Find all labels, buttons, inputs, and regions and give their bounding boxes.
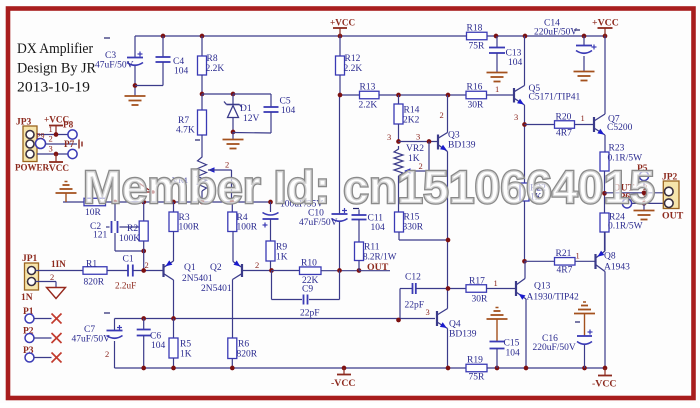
svg-text:-VCC: -VCC	[592, 379, 617, 390]
svg-text:4.7K: 4.7K	[176, 126, 195, 136]
svg-text:+VCC: +VCC	[330, 18, 355, 28]
svg-text:104: 104	[506, 349, 521, 359]
svg-text:R16: R16	[467, 83, 483, 93]
svg-text:C9: C9	[302, 285, 313, 295]
svg-text:R23: R23	[609, 144, 625, 154]
svg-text:100K: 100K	[119, 234, 140, 244]
svg-text:Q4: Q4	[449, 320, 461, 330]
svg-text:C1: C1	[123, 255, 134, 265]
svg-text:4R7: 4R7	[557, 266, 573, 276]
svg-text:2.2uF: 2.2uF	[115, 281, 136, 291]
svg-text:1: 1	[581, 113, 585, 123]
svg-text:BD139: BD139	[448, 141, 476, 151]
svg-text:P8: P8	[63, 120, 74, 130]
svg-text:Q2: Q2	[210, 263, 222, 273]
svg-text:Design By JR: Design By JR	[17, 60, 97, 77]
svg-text:104: 104	[174, 67, 189, 77]
svg-text:C5200: C5200	[607, 123, 633, 133]
svg-text:100R: 100R	[237, 223, 258, 233]
svg-text:220uF/50V: 220uF/50V	[534, 28, 577, 38]
svg-text:D1: D1	[240, 104, 252, 114]
svg-text:C3: C3	[105, 51, 116, 61]
svg-text:104: 104	[508, 58, 523, 68]
svg-text:2013-10-19: 2013-10-19	[17, 79, 90, 96]
svg-text:R15: R15	[404, 213, 420, 223]
svg-text:R13: R13	[360, 83, 376, 93]
svg-text:Member Id: cn1510664015: Member Id: cn1510664015	[83, 161, 655, 213]
svg-text:R4: R4	[237, 213, 248, 223]
svg-text:330R: 330R	[403, 223, 424, 233]
svg-text:30R: 30R	[472, 295, 489, 305]
svg-text:30R: 30R	[468, 101, 485, 111]
svg-text:220uF/50V: 220uF/50V	[533, 343, 576, 353]
svg-text:75R: 75R	[469, 373, 486, 383]
svg-text:1: 1	[49, 124, 53, 134]
svg-text:104: 104	[151, 341, 166, 351]
svg-text:Q1: Q1	[184, 263, 196, 273]
svg-text:DX Amplifier: DX Amplifier	[17, 40, 93, 57]
svg-text:104: 104	[371, 223, 386, 233]
svg-text:4R7: 4R7	[556, 129, 572, 139]
svg-text:3: 3	[514, 112, 518, 122]
svg-text:R10: R10	[301, 259, 317, 269]
svg-text:1: 1	[576, 251, 580, 261]
svg-text:C11: C11	[368, 214, 384, 224]
svg-text:2: 2	[440, 110, 444, 120]
svg-text:R9: R9	[276, 243, 287, 253]
svg-text:+VCC: +VCC	[592, 18, 619, 29]
svg-text:C12: C12	[405, 273, 421, 283]
svg-text:R7: R7	[178, 116, 189, 126]
svg-text:-VCC: -VCC	[331, 378, 356, 389]
svg-text:22pF: 22pF	[300, 309, 320, 319]
svg-text:C7: C7	[84, 325, 95, 335]
svg-text:47uF/50V: 47uF/50V	[72, 335, 111, 345]
svg-text:1IN: 1IN	[51, 259, 66, 269]
svg-text:1K: 1K	[276, 253, 288, 263]
svg-text:C5171/TIP41: C5171/TIP41	[529, 93, 581, 103]
svg-text:C5: C5	[280, 97, 291, 107]
svg-text:1K: 1K	[180, 350, 192, 360]
svg-text:820R: 820R	[84, 278, 105, 288]
svg-text:R20: R20	[556, 113, 572, 123]
svg-text:R2: R2	[127, 224, 138, 234]
svg-text:-VCC: -VCC	[46, 163, 69, 173]
svg-text:2: 2	[49, 134, 53, 144]
svg-text:2.2K: 2.2K	[344, 64, 363, 74]
svg-text:Q8: Q8	[604, 252, 616, 262]
svg-text:3: 3	[387, 132, 391, 142]
svg-text:BD139: BD139	[449, 330, 477, 340]
svg-text:1: 1	[495, 84, 499, 94]
svg-text:R14: R14	[404, 106, 420, 116]
svg-text:820R: 820R	[237, 350, 258, 360]
svg-text:8.2R/1W: 8.2R/1W	[363, 252, 397, 262]
svg-text:0.1R/5W: 0.1R/5W	[608, 222, 643, 232]
svg-text:R6: R6	[238, 340, 249, 350]
svg-text:2: 2	[50, 272, 54, 282]
svg-text:3: 3	[426, 307, 430, 317]
svg-text:C6: C6	[150, 332, 161, 342]
svg-text:3: 3	[49, 144, 53, 154]
svg-text:22pF: 22pF	[405, 301, 425, 311]
svg-text:R5: R5	[180, 340, 191, 350]
svg-text:2: 2	[145, 260, 149, 270]
svg-text:R19: R19	[467, 356, 483, 366]
svg-text:R18: R18	[467, 24, 483, 34]
svg-text:47uF/50V: 47uF/50V	[299, 218, 338, 228]
svg-text:R1: R1	[86, 260, 97, 270]
svg-text:P9: P9	[36, 132, 44, 141]
svg-text:121: 121	[93, 231, 108, 241]
svg-text:104: 104	[281, 106, 296, 116]
svg-text:2: 2	[105, 349, 109, 359]
svg-text:POWER: POWER	[15, 163, 50, 173]
svg-text:OUT: OUT	[367, 262, 389, 273]
svg-text:2: 2	[255, 260, 259, 270]
svg-text:R21: R21	[556, 249, 572, 259]
svg-text:C4: C4	[173, 57, 184, 67]
svg-text:R17: R17	[469, 277, 485, 287]
svg-text:2.2K: 2.2K	[359, 101, 378, 111]
svg-text:R12: R12	[345, 54, 361, 64]
svg-text:47uF/50V: 47uF/50V	[95, 61, 134, 71]
svg-text:VR2: VR2	[406, 144, 424, 154]
svg-text:R8: R8	[207, 54, 218, 64]
svg-text:2K2: 2K2	[403, 116, 420, 126]
svg-text:Q13: Q13	[534, 282, 551, 292]
svg-text:100R: 100R	[179, 223, 200, 233]
svg-text:Q3: Q3	[448, 131, 460, 141]
svg-text:2.2K: 2.2K	[206, 64, 225, 74]
svg-text:A1930/TIP42: A1930/TIP42	[527, 293, 580, 303]
svg-text:OUT: OUT	[662, 211, 684, 222]
svg-text:R3: R3	[179, 213, 190, 223]
svg-text:2N5401: 2N5401	[201, 284, 232, 294]
svg-text:12V: 12V	[243, 114, 260, 124]
svg-text:C13: C13	[506, 49, 522, 59]
svg-text:P7: P7	[64, 139, 75, 149]
svg-text:C15: C15	[504, 339, 520, 349]
svg-text:1: 1	[494, 278, 498, 288]
svg-text:1N: 1N	[21, 293, 33, 303]
svg-text:A1943: A1943	[604, 263, 630, 273]
svg-text:75R: 75R	[469, 42, 486, 52]
svg-text:2N5401: 2N5401	[182, 274, 213, 284]
svg-text:3: 3	[416, 132, 420, 142]
svg-text:JP2: JP2	[662, 173, 678, 183]
